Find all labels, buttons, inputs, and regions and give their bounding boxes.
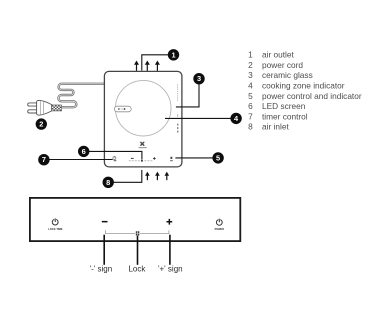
power icon (cooktop) (170, 157, 173, 161)
cooktop body (104, 71, 181, 166)
callout 3 (193, 73, 204, 84)
plug cord grip (checkered) (52, 105, 62, 111)
plug body (37, 100, 52, 115)
svg-text:6: 6 (82, 147, 86, 156)
plug prong upper (28, 103, 38, 106)
svg-text:timer control: timer control (262, 111, 308, 121)
callout line 8 (113, 170, 141, 182)
svg-text:power cord: power cord (262, 60, 303, 70)
svg-text:3: 3 (197, 74, 201, 83)
svg-text:Lock: Lock (128, 264, 146, 273)
callout line 3 (176, 84, 199, 107)
svg-text:power control and indicator: power control and indicator (262, 91, 362, 101)
svg-text:1: 1 (248, 50, 253, 60)
ceramic glass cooking zone circle (115, 80, 171, 136)
plus mark (153, 157, 156, 160)
bracket lock icon (136, 231, 140, 235)
leader line minus (103, 235, 105, 265)
power cord (58, 84, 104, 107)
svg-text:air inlet: air inlet (262, 122, 289, 132)
svg-text:LOCK TIME: LOCK TIME (48, 227, 63, 231)
svg-text:POWER: POWER (215, 228, 225, 231)
svg-text:ceramic glass: ceramic glass (262, 70, 313, 80)
bracket (106, 230, 169, 233)
svg-text:7: 7 (42, 155, 46, 164)
svg-text:4: 4 (248, 81, 253, 91)
svg-text:2: 2 (39, 120, 43, 129)
leader line lock (137, 236, 139, 265)
svg-text:8: 8 (106, 178, 110, 187)
zone label pill (114, 106, 131, 112)
svg-text:8: 8 (248, 122, 253, 132)
Electrolux symbol (139, 142, 147, 149)
svg-text:7: 7 (248, 111, 253, 121)
callout line 1 (142, 55, 169, 71)
callout 5 (212, 152, 223, 163)
svg-text:LED screen: LED screen (262, 101, 306, 111)
callout 7 (38, 154, 49, 165)
spec text (vertical, tiny) (177, 84, 179, 101)
callout 6 (78, 146, 89, 157)
panel power icon (216, 219, 222, 226)
callout line 5 (175, 157, 213, 159)
leader line plus (169, 235, 171, 265)
panel plus (167, 219, 173, 225)
callout 1 (168, 49, 179, 60)
legend (248, 50, 362, 132)
svg-text:6: 6 (248, 101, 253, 111)
svg-text:1: 1 (171, 50, 175, 59)
svg-text:cooking zone indicator: cooking zone indicator (262, 81, 345, 91)
LED scale dashes (129, 159, 153, 162)
control panel (30, 198, 240, 241)
svg-text:'+' sign: '+' sign (158, 264, 183, 273)
lock mark on LED row (141, 160, 143, 162)
panel minus (102, 221, 108, 223)
control strip: timer icon (113, 157, 116, 162)
svg-text:5: 5 (216, 154, 220, 163)
panel timer icon (52, 218, 58, 225)
bottom labels (90, 264, 183, 273)
minus mark (131, 158, 134, 159)
callout line 4 (165, 117, 231, 119)
callout 2 (36, 118, 47, 129)
callout line 6 (89, 151, 142, 159)
callout 8 (103, 177, 114, 188)
svg-text:3: 3 (248, 70, 253, 80)
svg-text:5: 5 (248, 91, 253, 101)
callout line 7 (49, 159, 113, 161)
air inlet arrows (bottom) (145, 172, 169, 181)
plug prong lower (28, 110, 38, 113)
air outlet arrows (top) (134, 60, 160, 70)
svg-text:2: 2 (248, 60, 253, 70)
svg-text:air outlet: air outlet (262, 50, 295, 60)
svg-text:'-' sign: '-' sign (90, 264, 113, 273)
callout 4 (230, 113, 241, 124)
